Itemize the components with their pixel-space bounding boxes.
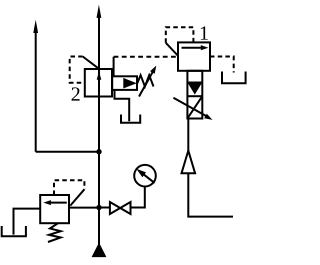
throttle adjust arrow — [173, 98, 207, 117]
relief right port wire — [69, 207, 99, 209]
open triangle vent — [182, 151, 196, 174]
valve 2 pilot diagonal — [83, 57, 99, 69]
valve 2 spring adjust arrow — [139, 71, 154, 97]
valve 1 pilot diagonal — [166, 43, 178, 56]
wire shutoff to gauge — [131, 187, 145, 208]
shutoff valve left triangle — [110, 202, 120, 214]
tank under valve 2 — [121, 115, 140, 123]
relief left port wire — [14, 209, 41, 235]
wire below column — [187, 119, 189, 152]
valve 1 column — [187, 71, 202, 119]
wire: left branch vertical — [35, 30, 37, 152]
junction dot lower — [96, 205, 101, 210]
column divider — [187, 95, 202, 97]
junction dot upper — [96, 149, 101, 154]
relief flow arrow (left) — [51, 202, 67, 204]
gauge circle — [134, 165, 156, 187]
valve 1 flow arrow — [182, 47, 203, 49]
shutoff valve right triangle — [120, 202, 130, 214]
valve 2 drain wire — [115, 90, 130, 121]
pressure source triangle (filled, bottom) — [92, 244, 105, 257]
wire below triangle to bottom right — [188, 173, 233, 216]
label 1 — [201, 26, 208, 39]
valve 2 spring — [137, 75, 153, 86]
valve 2 pilot dashed hook — [70, 57, 85, 83]
check valve cone (filled, down) — [188, 82, 202, 94]
valve 1 body — [178, 42, 210, 70]
tank bottom-left — [2, 226, 26, 236]
valve 2 flow arrowhead (up) — [97, 71, 102, 80]
label 2 — [72, 87, 80, 100]
gauge needle — [144, 174, 155, 183]
arrowhead main line top — [97, 5, 102, 18]
wire: left branch horizontal to main line — [36, 151, 99, 153]
valve 2 cone (filled triangle) — [123, 78, 137, 89]
tank right — [222, 72, 246, 84]
relief valve body — [40, 195, 69, 223]
arrowhead left branch — [33, 20, 38, 33]
relief pilot diagonal — [70, 189, 84, 205]
wire to shutoff valve — [99, 207, 110, 209]
valve 2 body — [85, 69, 112, 97]
dashed pilot line to valve 1 — [114, 56, 178, 58]
valve 1 right pilot dashed — [210, 57, 234, 73]
valve 1 pilot dashed box — [166, 27, 194, 43]
pilot riser from valve 2 box — [113, 57, 115, 77]
valve 2 pilot stage box — [112, 76, 137, 90]
relief spring — [48, 223, 61, 242]
throttle diagonal — [187, 96, 202, 118]
wire: main supply vertical line — [98, 16, 100, 245]
relief pilot dashed — [54, 180, 84, 195]
